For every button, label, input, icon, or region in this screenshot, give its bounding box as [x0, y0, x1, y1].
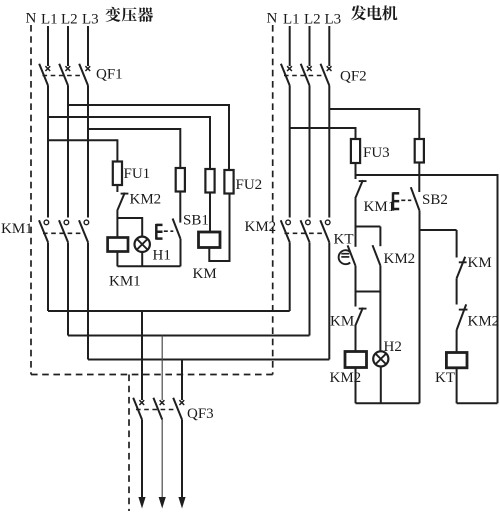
bus line 2	[68, 335, 310, 337]
wire FU1b to SB1	[179, 192, 181, 223]
svg-text:QF1: QF1	[96, 67, 123, 83]
wire KM1 pole2 to bus2	[67, 242, 69, 335]
wire H1 to rail	[141, 252, 143, 266]
output arrow 2	[159, 420, 166, 509]
wire KM2 contact to KM1 coil	[116, 211, 118, 238]
wire H2 to rail	[380, 366, 382, 403]
wire FU3a down	[355, 163, 357, 179]
svg-text:KM: KM	[193, 266, 217, 282]
wire KM coil to FU2b	[209, 194, 229, 262]
bus line 1	[48, 310, 290, 312]
contact KM2 NO (gen control)	[373, 245, 381, 265]
title 发电机 (generator)	[351, 5, 398, 20]
svg-text:KM1: KM1	[1, 221, 33, 237]
wire KT coil to rail	[456, 368, 458, 404]
wire gen L1 top	[289, 26, 291, 66]
wire KT branch top	[355, 227, 357, 247]
pushbutton SB1 blade	[173, 219, 181, 239]
pushbutton SB2 blade	[411, 187, 420, 210]
wire tap L1 to FU2a	[48, 117, 210, 169]
circuit-breaker QF3 pole 3	[173, 398, 184, 420]
contactor KM2 pole 1	[281, 220, 291, 242]
output arrow 3	[178, 420, 185, 509]
wire bus3 to QF3 pole3	[181, 360, 183, 401]
wire KM1 NC to split	[355, 199, 357, 227]
wire tap gen L1 to FU3a	[290, 128, 356, 139]
QF1 linkage	[43, 75, 85, 77]
wire right branch to KM NC	[456, 230, 458, 258]
svg-text:L3: L3	[82, 12, 99, 28]
fuse FU2a	[205, 169, 214, 193]
lamp H1	[135, 237, 150, 252]
wire gen L2 to KM2 contact	[309, 86, 311, 218]
wire gen control bottom rail	[356, 402, 420, 404]
wire feeder to right branch	[356, 175, 498, 403]
wire gen L3 to KM2 contact	[328, 86, 330, 218]
SB1 actuator link	[164, 230, 174, 232]
coil KT	[446, 353, 467, 368]
wire FU2a to KM coil	[209, 193, 211, 233]
svg-text:L1: L1	[283, 12, 300, 28]
svg-text:FU1: FU1	[124, 166, 151, 182]
svg-text:KM2: KM2	[468, 314, 500, 330]
svg-text:KM: KM	[468, 255, 492, 271]
wire KM2 contact down	[379, 266, 381, 292]
output arrow 1	[138, 420, 145, 509]
wire branch to H1	[117, 218, 142, 237]
svg-text:SB1: SB1	[183, 213, 209, 229]
svg-text:KM1: KM1	[364, 199, 396, 215]
fuse FU3a	[351, 139, 360, 163]
svg-text:KM2: KM2	[384, 251, 416, 267]
wire SB2 to right branch	[420, 229, 457, 231]
wire KM2 NC to KT coil	[456, 330, 458, 353]
svg-text:L2: L2	[304, 12, 321, 28]
contactor KM2 pole 2	[301, 220, 311, 242]
wire bottom rail left control	[117, 265, 180, 267]
lamp H2	[373, 351, 388, 366]
pushbutton SB1 actuator	[156, 224, 162, 240]
wire bus1 to QF3 pole1	[141, 311, 143, 400]
wire KM NC to KM2 coil	[355, 326, 357, 352]
circuit-breaker QF2 pole 2	[301, 64, 312, 86]
wire L2 to KM1 contact	[67, 86, 69, 218]
fuse FU1b	[176, 168, 185, 192]
wire KM1 pole3 to bus3	[87, 242, 89, 359]
contact KM1 NC (gen control)	[355, 180, 366, 198]
svg-text:KT: KT	[334, 232, 354, 248]
circuit-breaker QF3 pole 1	[133, 398, 144, 420]
wire KM2 coil to rail	[355, 368, 357, 404]
wire neutral N dashed (left)	[30, 25, 32, 375]
wire tap gen L3 to FU3b	[329, 109, 419, 139]
svg-text:L3: L3	[325, 12, 342, 28]
wire neutral N dashed (generator)	[272, 25, 274, 375]
fuse FU1a	[113, 162, 122, 186]
wire KM2 branch top	[379, 227, 381, 247]
svg-text:FU3: FU3	[363, 145, 390, 161]
wire tap L1 to FU1a	[48, 140, 117, 161]
circuit-breaker QF2 pole 1	[281, 64, 292, 86]
svg-text:L2: L2	[61, 12, 78, 28]
contact KM2 NC (left control)	[117, 193, 128, 211]
svg-text:KM: KM	[330, 314, 354, 330]
coil KM2	[345, 352, 367, 368]
svg-text:KM1: KM1	[109, 274, 141, 290]
svg-text:QF2: QF2	[340, 69, 367, 85]
contact KT delayed	[339, 245, 356, 265]
wire gen L3 top	[328, 26, 330, 66]
wire tap L3 to FU1b	[88, 129, 180, 168]
svg-text:QF3: QF3	[187, 406, 214, 422]
circuit-breaker QF1 pole 2	[59, 64, 70, 86]
wire N dashed drop to load	[128, 375, 130, 512]
svg-text:H1: H1	[153, 248, 171, 264]
wire L1 to KM1 contact	[47, 86, 49, 218]
svg-text:N: N	[26, 11, 37, 27]
wire L2 top	[67, 26, 69, 66]
wire FU3b to SB2	[418, 163, 420, 193]
wire SB1 to rail	[180, 239, 182, 266]
wire H2 branch	[379, 292, 381, 352]
svg-text:H2: H2	[384, 339, 402, 355]
coil KM	[199, 232, 221, 248]
contact KM2 NC (right branch)	[457, 304, 468, 330]
fuse FU3b	[415, 139, 424, 163]
wire tap L2 to FU2b	[68, 105, 229, 170]
svg-text:KM2: KM2	[245, 219, 277, 235]
wire right branch bottom rail	[457, 402, 498, 404]
contact KM NC (gen control)	[355, 308, 366, 326]
wire gen L1 to KM2 contact	[289, 86, 291, 218]
wire L3 to KM1 contact	[87, 86, 89, 218]
wire FU1a to KM2 contact	[116, 185, 118, 192]
wire gen L2 top	[309, 26, 311, 66]
wire KM1 coil to rail	[116, 252, 118, 267]
contactor KM1 pole 3	[79, 220, 89, 242]
KM1 linkage	[43, 232, 82, 234]
svg-text:N: N	[267, 11, 278, 27]
coil KM1	[108, 238, 128, 252]
wire KM2 pole2 to bus2	[309, 242, 311, 335]
contactor KM2 pole 3	[320, 220, 330, 242]
SB2 actuator link	[401, 199, 411, 201]
wire KM2 pole3 to bus3	[328, 242, 330, 359]
svg-text:L1: L1	[41, 12, 58, 28]
wire split rail top	[356, 226, 381, 228]
wire KT contact down	[355, 266, 357, 292]
contact KM NC (right branch)	[457, 257, 467, 279]
title 变压器 (transformer)	[105, 7, 153, 22]
circuit-breaker QF3 pole 2	[153, 398, 164, 420]
wire N dashed horizontal bottom	[31, 374, 273, 376]
svg-text:SB2: SB2	[422, 192, 448, 208]
circuit-breaker QF1 pole 3	[79, 64, 90, 86]
svg-text:FU2: FU2	[236, 177, 263, 193]
KM2 linkage	[285, 232, 323, 234]
wire rejoin rail	[356, 291, 381, 293]
contactor KM1 pole 2	[59, 220, 69, 242]
fuse FU2b	[224, 170, 233, 194]
wire SB2 down to rail	[419, 211, 421, 404]
wire KM2 pole1 to bus1	[289, 242, 291, 311]
QF2 linkage	[284, 75, 326, 77]
wire to KM NC	[355, 292, 357, 307]
circuit-breaker QF2 pole 3	[321, 64, 332, 86]
wire bus2 to QF3 pole2	[161, 336, 163, 401]
circuit-breaker QF1 pole 1	[39, 64, 50, 86]
svg-text:KT: KT	[435, 370, 455, 386]
wire L3 top	[87, 26, 89, 66]
contactor KM1 pole 1	[39, 220, 49, 242]
svg-text:KM2: KM2	[130, 192, 162, 208]
wire L1 top	[47, 26, 49, 66]
QF3 linkage	[136, 409, 179, 411]
wire KM1 pole1 to bus1	[47, 242, 49, 311]
wire KM NC to KM2 NC	[456, 278, 458, 304]
bus line 3	[88, 359, 329, 361]
pushbutton SB2 actuator	[393, 192, 399, 210]
